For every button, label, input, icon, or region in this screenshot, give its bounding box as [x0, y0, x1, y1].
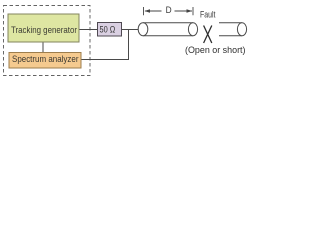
svg-text:Fault: Fault: [200, 10, 216, 20]
svg-text:Spectrum analyzer: Spectrum analyzer: [12, 54, 79, 64]
svg-text:(Open or short): (Open or short): [185, 45, 246, 55]
svg-text:D: D: [166, 5, 172, 15]
svg-text:50 Ω: 50 Ω: [100, 25, 116, 35]
svg-text:Tracking generator: Tracking generator: [11, 25, 77, 35]
